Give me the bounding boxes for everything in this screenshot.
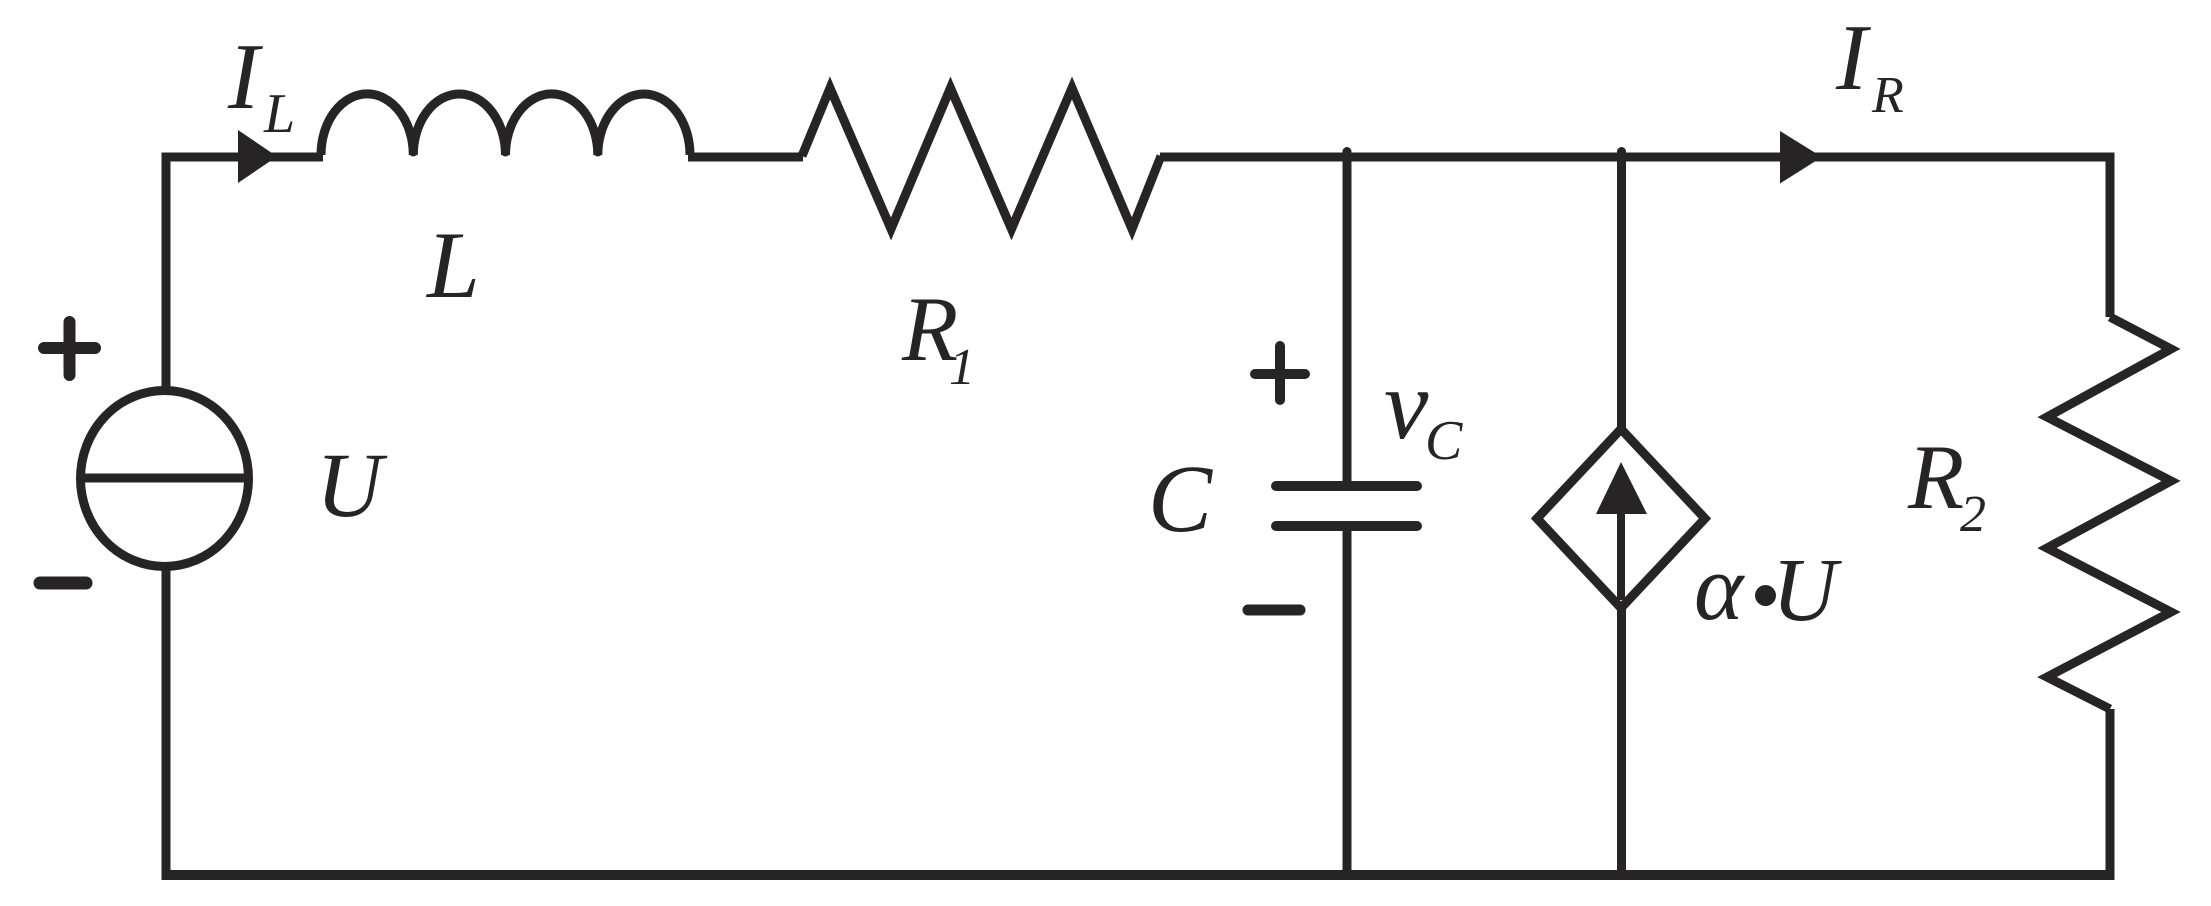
- svg-text:U: U: [1772, 541, 1842, 640]
- svg-text:α: α: [1694, 536, 1745, 640]
- wire left vertical lower: [162, 565, 171, 875]
- svg-text:U: U: [316, 434, 388, 536]
- plus sign source: [44, 322, 95, 375]
- svg-text:C: C: [1425, 410, 1463, 472]
- current arrow IR: [1780, 131, 1822, 184]
- inductor L cusp stem 2: [501, 138, 510, 152]
- wire top rail right segment: [1160, 153, 2115, 162]
- resistor R2: [2047, 317, 2171, 709]
- capacitor C top plate: [1276, 481, 1417, 491]
- wire dependent source upper: [1617, 157, 1626, 429]
- alpha dot bullet: [1755, 585, 1776, 606]
- svg-text:2: 2: [1960, 486, 1986, 543]
- svg-text:C: C: [1148, 445, 1213, 552]
- node B dependent source junction nub: [1617, 152, 1626, 161]
- wire dependent source lower: [1617, 608, 1626, 875]
- dependent current source diamond: [1537, 429, 1705, 608]
- wire top rail left segment: [162, 153, 324, 162]
- node A capacitor junction nub: [1343, 152, 1352, 161]
- minus sign source: [40, 577, 86, 590]
- current arrow IL: [238, 130, 277, 183]
- capacitor C bottom plate: [1276, 521, 1417, 531]
- voltage source U circle: [81, 391, 249, 567]
- inductor L cusp stem 3: [593, 138, 602, 152]
- inductor L cusp stem 1: [409, 138, 418, 152]
- svg-text:L: L: [263, 83, 295, 145]
- svg-text:I: I: [227, 25, 263, 129]
- wire top rail middle segment: [688, 153, 803, 162]
- voltage source U bar: [81, 474, 248, 483]
- inductor L: [321, 94, 690, 155]
- dependent source arrow shaft: [1617, 510, 1625, 600]
- resistor R1: [802, 88, 1161, 229]
- svg-text:v: v: [1384, 349, 1429, 460]
- wire capacitor upper: [1343, 157, 1352, 486]
- svg-text:1: 1: [949, 339, 975, 396]
- wire right vertical upper: [2106, 153, 2115, 317]
- dependent source arrow head: [1596, 462, 1647, 514]
- svg-text:L: L: [425, 212, 480, 318]
- wire left vertical upper: [162, 153, 171, 393]
- minus sign capacitor: [1248, 605, 1300, 616]
- wire bottom rail: [162, 870, 2115, 880]
- plus sign capacitor: [1255, 346, 1305, 400]
- wire right vertical lower: [2106, 709, 2115, 875]
- svg-text:R: R: [1907, 426, 1964, 528]
- svg-text:R: R: [1871, 67, 1904, 124]
- svg-text:I: I: [1835, 6, 1871, 110]
- wire capacitor lower: [1343, 526, 1352, 875]
